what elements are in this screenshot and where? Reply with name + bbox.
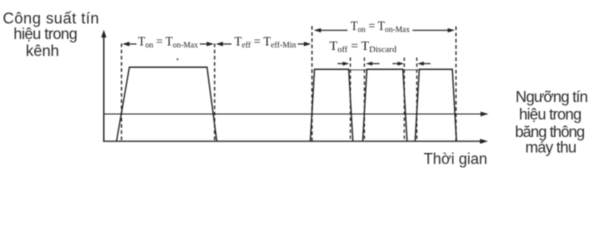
- y-axis (power axis): [101, 30, 106, 141]
- svg-text:Toff = TDiscard: Toff = TDiscard: [330, 38, 398, 54]
- threshold line (receiver bandwidth signal threshold): [103, 112, 489, 117]
- label: Toff = TDiscard: [330, 38, 398, 54]
- svg-text:Ngưỡng tín: Ngưỡng tín: [516, 89, 589, 106]
- x-axis baseline (time axis): [103, 139, 488, 144]
- svg-text:Ton = Ton-Max: Ton = Ton-Max: [351, 19, 411, 35]
- dimension arrows: Ton = Ton-Max (first burst): [122, 42, 213, 46]
- svg-text:máy thu: máy thu: [525, 139, 576, 156]
- pulse P1 (long burst trapezoid): [117, 67, 217, 141]
- svg-text:Teff = Teff-Min: Teff = Teff-Min: [234, 34, 296, 49]
- gap dimension arrow a1 (points right at D5): [338, 62, 350, 66]
- svg-text:hiệu trong: hiệu trong: [14, 26, 78, 43]
- speck (scan noise dot): [177, 58, 179, 60]
- dashed marker D2 (right threshold crossing of P1): [214, 44, 216, 142]
- svg-text:kênh: kênh: [26, 43, 59, 60]
- label: y-axis title "Công suất tín hiệu trong kênh": [3, 10, 99, 60]
- wire: faint envelope line across gap P3-P4: [403, 69, 419, 71]
- wire: faint envelope line across gap P2-P3: [349, 69, 367, 71]
- pulse P2 (first short burst): [310, 69, 353, 141]
- svg-text:hiệu trong: hiệu trong: [519, 106, 582, 123]
- dashed marker D6 (left crossing of P3): [363, 58, 365, 142]
- gap dimension arrow a3 (points right at D7): [393, 62, 405, 66]
- svg-text:Thời gian: Thời gian: [424, 151, 488, 168]
- dashed marker D4 (right edge of burst group): [455, 27, 457, 142]
- dashed marker D8 (left crossing of P4): [416, 58, 418, 142]
- pulse P4 (third short burst): [415, 69, 456, 141]
- svg-text:Công suất tín: Công suất tín: [3, 10, 99, 27]
- dashed marker D3 (left edge of burst group): [311, 26, 313, 142]
- label: threshold "Ngưỡng tín hiệu trong băng thông máy thu": [515, 89, 588, 156]
- label: Ton = Ton-Max (first burst): [138, 34, 199, 50]
- dashed marker D1 (left threshold crossing of P1): [121, 44, 123, 142]
- svg-text:Ton = Ton-Max: Ton = Ton-Max: [138, 34, 199, 50]
- label: Teff = Teff-Min: [234, 34, 296, 49]
- label: Ton = Ton-Max (burst group): [351, 19, 411, 35]
- dashed marker D7 (right crossing of P3): [403, 58, 405, 142]
- gap dimension arrow a2 (points left at D6): [366, 62, 380, 66]
- dimension arrows: Ton = Ton-Max (burst group): [314, 28, 455, 32]
- gap dimension arrow a4 (points left at D8): [417, 62, 430, 66]
- pulse P3 (second short burst): [363, 69, 407, 141]
- dimension arrows: Teff = Teff-Min: [216, 42, 311, 46]
- dashed marker D5 (right crossing of P2): [349, 58, 351, 142]
